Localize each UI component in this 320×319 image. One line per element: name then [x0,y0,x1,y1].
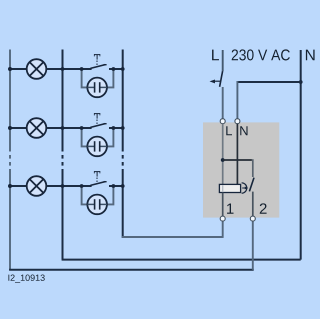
wire: internal N vertical to coil [236,124,238,185]
ROW 1 [8,54,125,97]
switch Q arrow [214,80,222,82]
wire: coil to terminal 1 [222,193,224,217]
contact blade (device output switch) [249,178,254,192]
glow lamp row2 electrodes [87,145,94,147]
pushbutton S2 blade [90,124,105,128]
wire: middle bus continuation dashes [62,155,64,159]
wire: pushbutton bus (to terminal 1), upper solid [122,50,124,152]
glow lamp branch row1 (parallel with button) [82,69,88,87]
pushbutton S3 blade [90,182,105,186]
ROW 2 [8,113,125,156]
wire row3 left: bus to lamp [10,185,27,187]
junction row1 / pushbutton bus [121,67,125,71]
label N (supply) [306,50,315,61]
label T (row3) [94,171,100,176]
junction row3 / glow-lamp branch left [80,184,84,188]
wire row3 mid [46,185,91,187]
wire: terminal 1 drop [222,221,224,238]
wire: contact to terminal 2 [252,192,254,216]
glow lamp branch row2 [82,128,88,146]
lamp E3 (circle with X) [27,176,47,196]
junction row3 / pushbutton bus [121,184,125,188]
junction row1 / glow-lamp branch left [80,67,84,71]
pushbutton S2 actuator dashed link [96,120,98,126]
label L (supply) [212,50,219,61]
junction row1 / glow-lamp branch right [112,67,116,71]
junction row1 / left bus [8,67,12,71]
wire: internal link to contact [223,159,252,161]
wire: L drop from label [222,50,224,71]
junction row3 / glow-lamp branch right [112,184,116,188]
relay coil K (timer) [219,184,240,192]
caption I2_10913 [8,275,44,283]
wire row2 right [109,127,123,129]
pushbutton S1 blade [90,65,105,69]
wire: pushbutton bus continuation dashes [122,155,124,159]
terminal N circle [235,119,240,124]
label 1 [227,203,233,213]
node: N branch junction [299,80,303,84]
actuator arrow [242,187,245,189]
glow lamp row2 circle [87,137,107,157]
actuator arc [242,183,247,193]
wire: terminal 2 drop to bottom rail [252,221,254,270]
label L (device) [226,126,232,135]
pushbutton S3 actuator dashed link [96,178,98,184]
wire: rail from pushbutton bus to terminal 1 [122,236,223,238]
wire row1 mid: lamp to pushbutton [46,68,91,70]
wire row3 right [109,185,123,187]
wire: N rail from middle bus to N supply line [62,259,301,261]
pushbutton S1 actuator dashed link [96,61,98,67]
lamp E1 (circle with X) [27,59,47,79]
label 2 [260,203,267,213]
junction row2 / pushbutton bus [121,126,125,130]
glow lamp row3 electrodes [87,203,94,205]
terminal 1 circle [220,216,225,221]
wire row2 left: bus to lamp [10,127,27,129]
glow lamp branch row3 [82,186,88,204]
junction row1 / middle bus [61,67,65,71]
junction row2 / left bus [8,126,12,130]
wire: left lamp bus (net to terminal 2), upper solid [9,50,11,152]
wire: pushbutton bus lower solid [122,169,124,238]
terminal L circle [220,119,225,124]
label T (row2) [94,113,100,118]
wire: left lamp bus continuation dashes [9,155,11,159]
wire: middle bus (N return), upper solid [62,50,64,152]
wire: left lamp bus, lower solid down to bottom rail [9,169,11,270]
wire row1 left: bus to lamp [10,68,27,70]
device box (staircase timer) [203,122,279,217]
label T (row1) [94,54,100,59]
switch Q main blade [220,71,223,87]
label N (device) [240,126,247,135]
lamp E2 (circle with X) [27,118,47,138]
junction row2 / glow-lamp branch left [80,126,84,130]
node: internal L junction [221,158,225,162]
wire: internal L vertical to coil [222,124,224,185]
wire: bottom rail from left bus to terminal 2 drop [9,269,254,271]
wire: middle bus lower solid to N rail [62,169,64,260]
label 230 V AC [232,49,290,60]
wire: N branch to device [237,81,301,83]
wire row2 mid [46,127,91,129]
glow lamp row1 electrodes [87,86,94,88]
wire row1 right: pushbutton to bus [109,68,123,70]
wire: L to device terminal L [222,87,224,119]
terminal 2 circle [250,216,255,221]
junction row3 / middle bus [61,184,65,188]
junction row2 / middle bus [61,126,65,130]
junction row3 / left bus [8,184,12,188]
glow lamp row1 circle [87,78,107,98]
junction row2 / glow-lamp branch right [112,126,116,130]
glow lamp row3 circle [87,195,107,215]
wire: N supply vertical [300,50,302,260]
ROW 3 [8,171,125,214]
